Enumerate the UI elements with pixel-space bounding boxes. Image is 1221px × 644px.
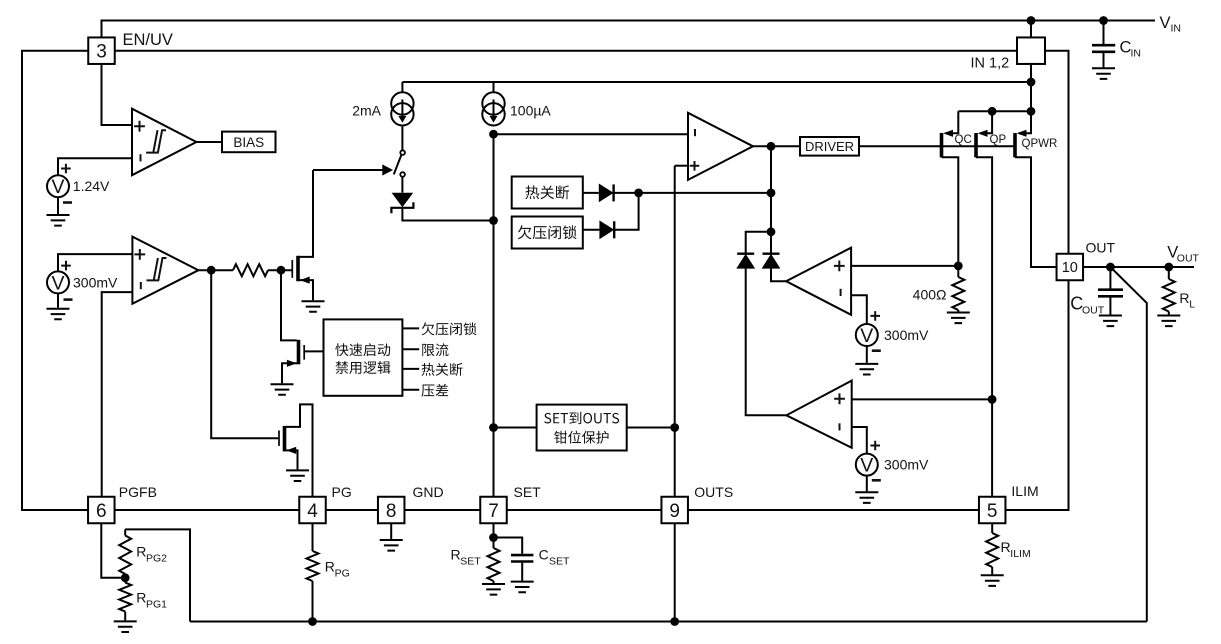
- capacitor COUT: [1109, 267, 1111, 289]
- svg-text:1.24V: 1.24V: [73, 178, 110, 194]
- svg-text:400Ω: 400Ω: [913, 287, 947, 303]
- ground for COUT: [1099, 316, 1122, 327]
- voltage source 300mV (PGFB): [47, 271, 69, 293]
- transistor QP: [980, 111, 992, 133]
- diode D3 (UVLO): [583, 229, 600, 231]
- wire 300mV source to U2 + input: [58, 254, 132, 271]
- svg-text:V: V: [51, 272, 64, 294]
- resistor RL: [1168, 267, 1170, 279]
- comparator U4 (current limit): [786, 248, 851, 315]
- ground for Q3: [286, 470, 309, 481]
- ground for CSET: [511, 582, 534, 593]
- svg-text:OUT: OUT: [1086, 240, 1116, 256]
- node VIN-to-IN junction: [1027, 16, 1036, 25]
- svg-text:PG1: PG1: [146, 599, 167, 611]
- transistor Q3 (PG open drain): [278, 431, 280, 446]
- stub + label current-limit input: [402, 348, 419, 350]
- node VOUT junction: [1164, 263, 1173, 272]
- IC package boundary right: [1045, 51, 1069, 254]
- ground for GND pin: [380, 540, 403, 551]
- node RSET-CSET junction: [489, 533, 498, 542]
- ground for 300mV cl: [855, 364, 878, 375]
- node pass rail junction 2: [988, 107, 997, 116]
- pin 7 SET box: [480, 497, 507, 524]
- svg-text:QPWR: QPWR: [1022, 138, 1058, 150]
- wire VOUT feedback sense: [1110, 267, 1146, 622]
- wire VOUT bottom rail: [190, 621, 1147, 623]
- pin 9 OUTS box: [661, 497, 688, 524]
- svg-text:C: C: [539, 547, 549, 563]
- wire U1 output to BIAS: [196, 141, 222, 143]
- svg-text:EN/UV: EN/UV: [123, 31, 173, 49]
- svg-text:10: 10: [1062, 260, 1078, 276]
- svg-text:SET: SET: [514, 484, 542, 500]
- block UVLO: [512, 217, 583, 249]
- wire pin7 to RSET: [493, 523, 495, 537]
- svg-text:PG2: PG2: [146, 553, 167, 565]
- IC package boundary left+top: [22, 51, 88, 510]
- svg-text:SET: SET: [460, 556, 481, 568]
- voltage source 300mV (foldback): [856, 454, 878, 476]
- block thermal shutdown: [512, 177, 583, 209]
- stub + label thermal input: [402, 368, 419, 370]
- svg-text:IN: IN: [1131, 48, 1142, 60]
- resistor RPG: [312, 523, 314, 551]
- wire error amp output to DRIVER: [753, 145, 800, 147]
- transistor QPWR: [1019, 111, 1031, 133]
- comparator U2 PGFB Schmitt: [132, 237, 198, 304]
- ground for 300mV fb: [855, 492, 878, 503]
- diode D4 (clamp from current-limit comp): [746, 232, 771, 254]
- block DRIVER: [800, 137, 859, 156]
- comparator U5 (foldback): [786, 381, 851, 448]
- node driver input junction: [767, 142, 776, 151]
- svg-text:ILIM: ILIM: [1011, 483, 1038, 499]
- svg-text:DRIVER: DRIVER: [805, 139, 854, 154]
- block fast-start disable logic: [324, 319, 403, 395]
- node OUTS-clamp junction: [670, 423, 679, 432]
- pin IN 1,2 box: [1017, 37, 1045, 64]
- svg-text:9: 9: [669, 501, 680, 522]
- node supply rail junction: [1027, 78, 1036, 87]
- svg-text:QC: QC: [955, 134, 972, 146]
- node thermal/uvlo pulldown junction: [767, 189, 776, 198]
- svg-text:V: V: [51, 176, 64, 198]
- wire U2 - input to pin 6 PGFB: [102, 292, 133, 497]
- ground for 1.24V source: [47, 215, 70, 226]
- node 400ohm junction: [954, 262, 963, 271]
- wire VOUT rail to RPG2: [125, 529, 190, 621]
- pin 3 EN/UV box: [88, 37, 115, 64]
- ground for 400ohm: [947, 313, 970, 324]
- svg-text:IN: IN: [1171, 23, 1182, 35]
- node SET-clamp junction: [489, 423, 498, 432]
- node CIN junction: [1099, 16, 1108, 25]
- svg-text:OUT: OUT: [1177, 253, 1200, 265]
- svg-text:300mV: 300mV: [884, 457, 929, 473]
- error amplifier U3: [688, 113, 753, 180]
- node ILIM sense junction: [988, 395, 997, 404]
- wire pin3 to comparator U1 + input: [102, 64, 133, 125]
- wire U4 + input to 400ohm: [851, 265, 958, 267]
- resistor RSET: [493, 538, 495, 549]
- capacitor CIN: [1103, 21, 1105, 45]
- wire DRIVER output to gates: [859, 145, 1015, 147]
- ground for Q2: [271, 384, 294, 395]
- pin 8 GND box: [378, 497, 405, 524]
- wire OUTS to error amp + input: [675, 165, 688, 167]
- resistor R1 (gate series): [233, 264, 268, 276]
- resistor 400ohm: [957, 266, 959, 277]
- svg-text:300mV: 300mV: [884, 327, 929, 343]
- wire 1.24V source to U1 - input: [58, 158, 132, 175]
- wire gate-drive node vertical: [770, 146, 772, 232]
- ground for RPG1: [114, 621, 137, 632]
- wire OUT pin to VOUT: [1083, 266, 1194, 268]
- comparator U1 EN/UV Schmitt: [132, 109, 196, 176]
- node diode-OR junction: [634, 189, 643, 198]
- svg-text:R: R: [1001, 539, 1011, 555]
- wire U2 output to Q3 gate: [211, 270, 278, 438]
- stub + label UVLO input: [402, 327, 419, 329]
- svg-text:R: R: [451, 547, 461, 563]
- current source I1 2mA: [401, 82, 403, 92]
- svg-text:8: 8: [386, 501, 397, 522]
- svg-text:R: R: [1179, 290, 1189, 306]
- transistor Q2 (disable NMOS): [281, 270, 297, 340]
- svg-text:300mV: 300mV: [73, 275, 118, 291]
- pin 5 ILIM box: [979, 497, 1006, 524]
- voltage source 300mV (current limit): [856, 324, 878, 346]
- wire U5 - input to 300mV: [852, 427, 867, 454]
- block BIAS: [222, 132, 276, 153]
- wire U2 output: [198, 269, 233, 271]
- svg-text:SET: SET: [549, 556, 570, 568]
- svg-text:V: V: [860, 455, 873, 477]
- ground for CIN: [1092, 68, 1115, 79]
- switch SW1 (fast charge): [400, 150, 405, 155]
- node pass rail junction 1: [1027, 107, 1036, 116]
- svg-text:R: R: [136, 544, 146, 560]
- node PGFB divider junction: [121, 573, 130, 582]
- svg-text:5: 5: [987, 501, 998, 522]
- node clamp diode junction: [767, 227, 776, 236]
- node SET line top junction: [489, 130, 498, 139]
- svg-text:V: V: [860, 325, 873, 347]
- svg-text:7: 7: [488, 501, 499, 522]
- diode D2 (thermal): [583, 192, 599, 194]
- wire pin6 to divider: [101, 523, 125, 578]
- wire top supply rail: [402, 81, 1031, 83]
- node RPG-VOUT junction: [308, 617, 317, 626]
- svg-text:4: 4: [307, 501, 318, 522]
- diode D5 (clamp from foldback comp): [770, 232, 772, 254]
- capacitor CSET: [494, 538, 523, 554]
- svg-text:QP: QP: [990, 134, 1007, 146]
- wire 300mV to ground: [57, 293, 59, 307]
- stub + label dropout input: [402, 389, 419, 391]
- node COUT junction: [1106, 263, 1115, 272]
- svg-text:PG: PG: [332, 484, 352, 500]
- node U2 output junction: [207, 266, 216, 275]
- svg-text:2mA: 2mA: [352, 103, 381, 119]
- svg-text:IN 1,2: IN 1,2: [971, 56, 1010, 72]
- voltage source 1.24V: [47, 175, 69, 197]
- wire VIN rail down to IN pin: [1030, 21, 1032, 38]
- wire IN pin down to pass transistors: [1030, 64, 1032, 111]
- svg-text:3: 3: [96, 42, 107, 63]
- svg-text:PG: PG: [335, 568, 350, 580]
- node SET-zener junction: [489, 216, 498, 225]
- wire OUTS line vertical: [674, 166, 676, 497]
- zener diode D1 (clamp): [401, 176, 403, 192]
- IC package boundary bottom segments: [115, 509, 979, 511]
- node OUTS-VOUT junction: [670, 617, 679, 626]
- svg-text:V: V: [1160, 14, 1171, 32]
- wire Q1 drain to switch control arrow: [313, 169, 383, 171]
- wire OUTS pin to VOUT rail: [674, 523, 676, 621]
- wire U5 + input to ILIM line: [852, 398, 992, 400]
- wire pin8 to ground: [390, 523, 392, 539]
- ground for RL: [1157, 316, 1180, 327]
- wire 1.24V to ground: [57, 197, 59, 214]
- wire pass transistor rail: [958, 110, 1031, 112]
- svg-text:OUTS: OUTS: [694, 484, 733, 500]
- ground for RILIM: [981, 575, 1004, 586]
- transistor Q1 (fast-charge NMOS): [291, 260, 293, 278]
- wire 300mV fb to ground: [866, 476, 868, 492]
- wire U4 - input to 300mV: [851, 295, 867, 324]
- ground for RSET: [482, 584, 505, 595]
- svg-text:BIAS: BIAS: [233, 135, 264, 150]
- resistor RILIM: [991, 523, 993, 533]
- svg-text:R: R: [325, 559, 335, 575]
- pin 6 PGFB box: [88, 497, 115, 524]
- wire 100uA to error amp - input: [494, 133, 689, 135]
- ground for Q1: [302, 301, 325, 312]
- resistor RPG2: [124, 529, 126, 535]
- wire SET line vertical: [493, 134, 495, 496]
- transistor QC: [946, 111, 959, 133]
- svg-text:L: L: [1189, 299, 1195, 311]
- svg-text:PGFB: PGFB: [119, 484, 157, 500]
- pin 4 PG box: [299, 497, 326, 524]
- svg-text:GND: GND: [413, 484, 444, 500]
- wire EN/UV external rail to VIN: [102, 21, 1156, 38]
- wire 300mV cl to ground: [866, 346, 868, 363]
- block SET-to-OUTS clamp: [494, 427, 537, 429]
- node R1 right junction: [277, 266, 286, 275]
- svg-text:ILIM: ILIM: [1010, 548, 1030, 560]
- svg-text:100µA: 100µA: [510, 103, 551, 119]
- pin 10 OUT box: [1057, 254, 1084, 281]
- current source I2 100uA: [493, 82, 495, 92]
- ground for 300mV source: [47, 309, 70, 320]
- svg-text:6: 6: [96, 501, 107, 522]
- svg-text:R: R: [136, 590, 146, 606]
- resistor RPG1: [124, 578, 126, 583]
